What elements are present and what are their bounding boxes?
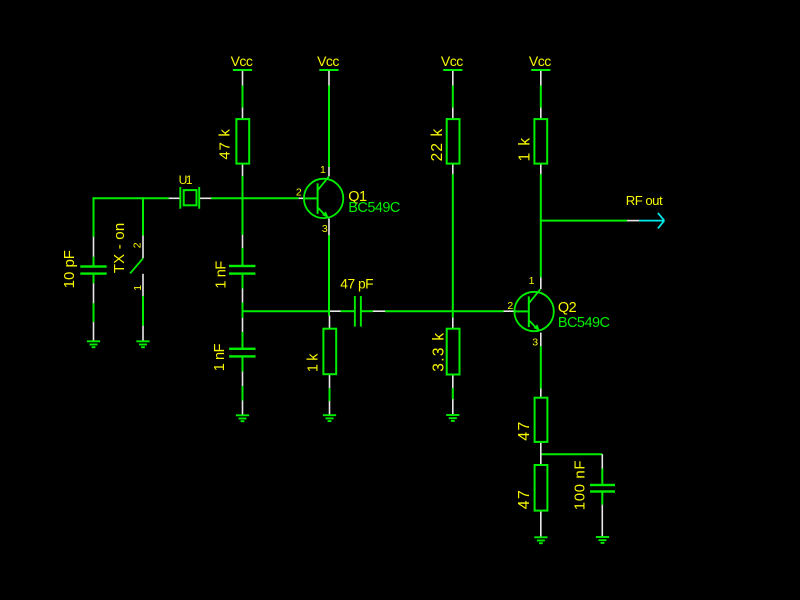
pin ground stem R4 (329, 401, 331, 415)
resistor R7 47 (535, 465, 548, 511)
pin R6 top (540, 389, 542, 398)
wire 1k bottom to Q2 collector (540, 174, 542, 277)
svg-text:3: 3 (532, 337, 538, 349)
ground (C3) (236, 415, 249, 421)
pin C2 top (242, 235, 244, 248)
wire 47R junction to 100nF (541, 453, 603, 455)
power Vcc symbol (47k column) (231, 53, 253, 70)
wire 1k to ground (329, 388, 331, 401)
svg-text:Vcc: Vcc (231, 53, 253, 69)
power Vcc symbol (22k column) (441, 53, 463, 70)
resistor R5 1k (534, 119, 547, 164)
wire down to C 10pF (93, 197, 95, 237)
svg-text:Vcc: Vcc (441, 53, 463, 69)
pin ground stem R3 (452, 399, 454, 414)
pin C5 to ground (601, 505, 603, 537)
pin Vcc stem R5 (540, 71, 542, 86)
svg-text:BC549C: BC549C (558, 315, 610, 331)
pin 2 of switch (142, 236, 144, 259)
svg-text:3.3 k: 3.3 k (431, 332, 448, 372)
wire node XTAL-left horizontal (93, 197, 169, 199)
pin 2 of Q2 base (504, 310, 515, 312)
resistor R2 22k (447, 119, 460, 164)
wire 10pF to ground (93, 303, 95, 322)
pin R6-R7 junction (540, 442, 542, 465)
wire Vcc to 47k (242, 85, 244, 107)
wire 10pF bottom stub (93, 275, 95, 284)
svg-text:22 k: 22 k (429, 128, 446, 162)
wire 22k bottom to 3.3k top across base node (452, 174, 454, 318)
pin C3 bottom (242, 372, 244, 387)
svg-text:100 nF: 100 nF (571, 460, 588, 510)
wire 1nF C3 bottom stub (242, 358, 244, 372)
capacitor C4 47pF plates (354, 296, 362, 327)
svg-text:2: 2 (507, 300, 513, 312)
wire 47pF right stub (361, 310, 373, 312)
resistor R3 3.3k (447, 329, 460, 375)
svg-text:Q2: Q2 (558, 300, 577, 316)
resistor R6 47 (535, 398, 548, 442)
pin U1 left (169, 197, 180, 199)
pin 1 of Q2 collector (540, 277, 542, 289)
svg-text:2: 2 (131, 242, 143, 248)
pin RF out stub (627, 220, 639, 222)
pin C4 left (330, 310, 341, 312)
wire down to switch (142, 197, 144, 235)
pin 2 of Q1 base (299, 197, 305, 199)
pin Vcc stem R2 (452, 71, 454, 86)
pin R3 top (452, 318, 454, 329)
svg-text:47 k: 47 k (216, 128, 233, 159)
pin R1 bottom (242, 164, 244, 176)
wire 1nF C2 bottom stub (242, 275, 244, 289)
pin C1 bottom (93, 283, 95, 303)
wire C2-C3 node (242, 303, 244, 319)
wire 47pF left stub (340, 310, 354, 312)
wire Vcc to 1k (540, 85, 542, 107)
wire Vcc to Q1 collector (328, 85, 330, 167)
resistor R1 47k (236, 119, 249, 164)
svg-text:1: 1 (320, 164, 326, 176)
capacitor C5 100nF plates (590, 484, 615, 493)
pin U1 right (200, 197, 212, 199)
pin R4 top (329, 316, 331, 329)
pin ground stem switch (142, 326, 144, 341)
ground (R4) (323, 415, 336, 421)
svg-text:TX - on: TX - on (111, 223, 128, 274)
capacitor C2 1nF plates (229, 265, 255, 275)
pin C3 top (242, 318, 244, 332)
capacitor C3 1nF plates (229, 348, 255, 358)
pin R4 bottom (329, 374, 331, 388)
ground (R7) (534, 537, 547, 543)
svg-text:1 nF: 1 nF (212, 343, 228, 371)
power Vcc symbol (Q1 column) (317, 53, 339, 70)
wire Q1 emitter down across feedback node (328, 235, 330, 316)
pin 3 of Q2 emitter (540, 333, 542, 347)
svg-text:47 pF: 47 pF (340, 276, 373, 291)
ground (R3) (446, 415, 459, 421)
wire 3.3k to ground (452, 388, 454, 399)
svg-text:RF out: RF out (626, 193, 663, 208)
switch blade (open contact) (130, 258, 143, 273)
svg-text:3: 3 (322, 223, 328, 235)
pin C1 top (93, 237, 95, 257)
ground (switch) (136, 341, 149, 347)
pin C4 right (373, 310, 385, 312)
svg-text:1 k: 1 k (517, 137, 534, 162)
wire feedback node to 47pF (243, 310, 331, 312)
pin R1 top (242, 108, 244, 119)
svg-text:47: 47 (516, 420, 533, 440)
svg-text:BC549C: BC549C (348, 200, 400, 216)
wire 47pF to Q2 base (385, 310, 504, 312)
svg-text:1 nF: 1 nF (214, 261, 230, 289)
wire crystal to Q1 base (211, 197, 299, 199)
svg-text:U1: U1 (179, 173, 193, 187)
svg-text:10 pF: 10 pF (61, 250, 78, 288)
wire 100nF bottom stub (601, 492, 603, 505)
svg-text:2: 2 (296, 186, 302, 198)
wire Q2 emitter to 47R (540, 346, 542, 389)
pin Vcc stem Q1 (328, 71, 330, 86)
pin R5 bottom (540, 164, 542, 175)
pin R3 bottom (452, 374, 454, 388)
capacitor C1 10pF plates (80, 265, 106, 275)
pin R5 top (540, 108, 542, 119)
pin C5 top (601, 454, 603, 468)
svg-text:47: 47 (516, 489, 533, 509)
net RF out arrow (639, 213, 664, 229)
resistor R4 1k (323, 329, 336, 375)
pin 1 of switch (142, 274, 144, 296)
svg-text:Vcc: Vcc (317, 53, 339, 69)
pin C2 bottom (242, 289, 244, 303)
pin R2 top (452, 108, 454, 119)
wire 10pF top stub (93, 257, 95, 266)
pin ground stem C1 (93, 322, 95, 341)
pin 3 of Q1 emitter (328, 219, 330, 236)
wire 47k bottom through node to C2 (242, 176, 244, 235)
transistor Q2 BC549C (514, 289, 553, 331)
transistor Q1 BC549C (304, 176, 343, 218)
ground (C5) (596, 537, 609, 543)
power Vcc symbol (1k column) (529, 53, 551, 70)
wire Vcc to 22k (452, 85, 454, 107)
pin ground stem C3 (242, 401, 244, 416)
svg-text:Vcc: Vcc (529, 53, 551, 69)
wire collector to RF out (541, 220, 627, 222)
pin R2 bottom (452, 164, 454, 175)
svg-text:1: 1 (529, 275, 535, 287)
ground (C1) (87, 341, 100, 347)
pin Vcc stem R1 (242, 71, 244, 86)
wire into 100nF top (601, 469, 603, 484)
wire into 1nF C2 top (242, 248, 244, 266)
svg-text:1: 1 (132, 285, 144, 291)
wire C3 to ground (242, 386, 244, 401)
pin 1 of Q1 collector (328, 167, 330, 176)
crystal U1 (180, 187, 199, 209)
wire switch pin1 to ground (142, 296, 144, 326)
pin R7 to ground (540, 511, 542, 537)
wire into 1nF C3 top (242, 332, 244, 348)
svg-text:1 k: 1 k (306, 353, 322, 372)
